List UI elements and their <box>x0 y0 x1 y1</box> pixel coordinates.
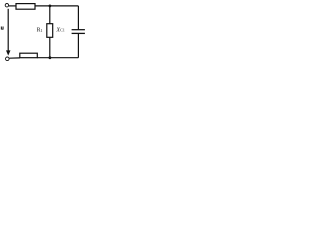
svg-text:C1: C1 <box>60 29 65 33</box>
svg-text:R1: R1 <box>37 28 43 34</box>
